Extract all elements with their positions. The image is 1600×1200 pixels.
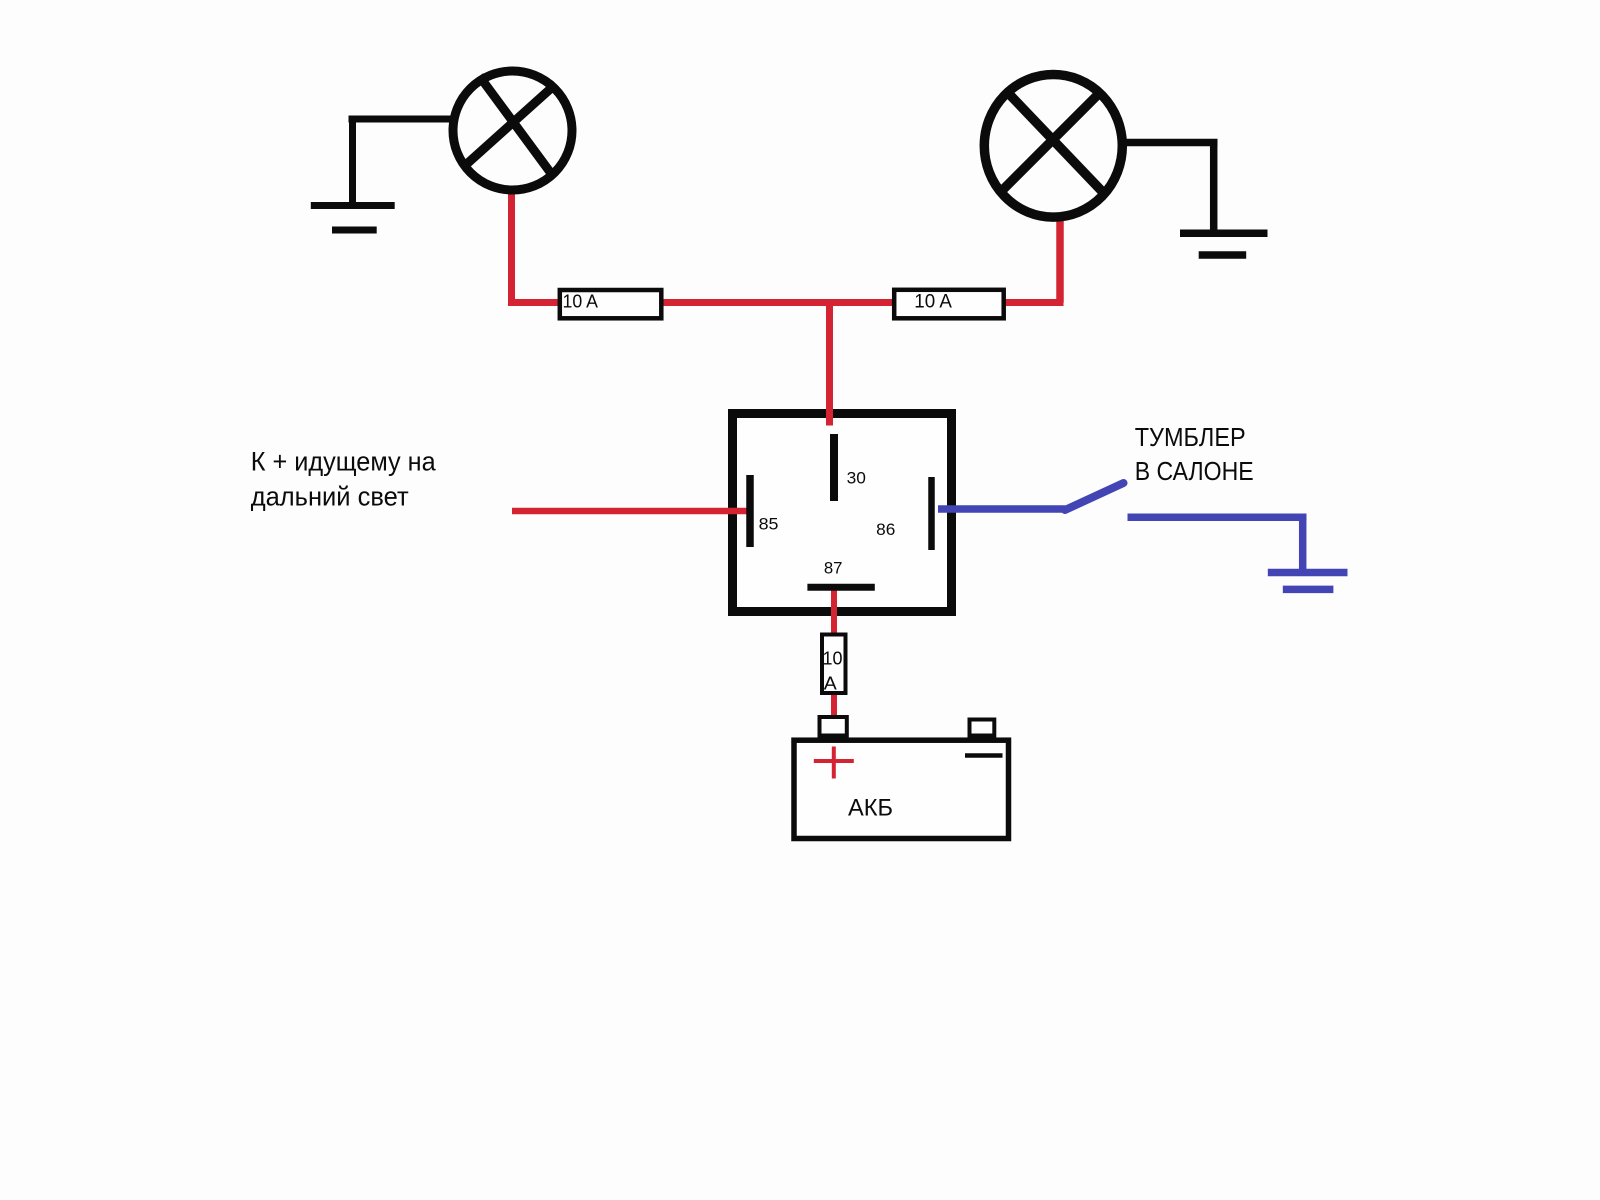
svg-text:30: 30	[847, 468, 866, 487]
svg-text:10: 10	[823, 649, 843, 669]
svg-text:85: 85	[759, 515, 779, 534]
svg-text:дальний свет: дальний свет	[251, 482, 409, 512]
svg-text:В САЛОНЕ: В САЛОНЕ	[1135, 456, 1254, 486]
svg-text:87: 87	[824, 559, 843, 578]
svg-text:10 A: 10 A	[914, 292, 952, 313]
svg-text:АКБ: АКБ	[848, 795, 893, 822]
svg-text:К + идущему на: К + идущему на	[251, 447, 437, 477]
svg-text:10 A: 10 A	[563, 292, 599, 312]
svg-text:A: A	[824, 674, 837, 694]
svg-text:86: 86	[876, 520, 895, 539]
svg-text:ТУМБЛЕР: ТУМБЛЕР	[1135, 422, 1246, 452]
